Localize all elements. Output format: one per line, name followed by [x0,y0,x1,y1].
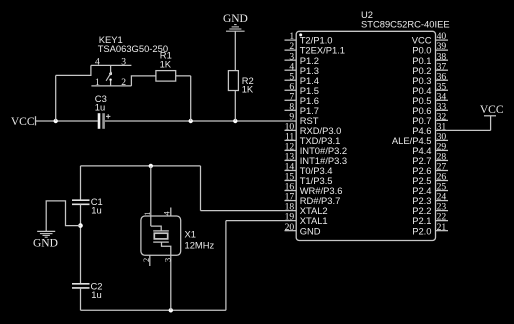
svg-text:VCC: VCC [480,104,504,116]
svg-text:1: 1 [143,212,152,216]
svg-text:TSA063G50-250: TSA063G50-250 [98,43,168,54]
svg-text:1K: 1K [160,59,172,70]
svg-text:3: 3 [121,56,126,67]
svg-text:STC89C52RC-40IEE: STC89C52RC-40IEE [361,18,450,29]
svg-text:P2.0: P2.0 [412,225,431,236]
svg-text:GND: GND [300,225,321,236]
svg-text:1K: 1K [242,84,254,95]
svg-text:VCC: VCC [11,116,35,128]
svg-text:21: 21 [437,222,447,233]
svg-text:1: 1 [95,77,100,88]
svg-text:3: 3 [163,258,172,262]
svg-text:12MHz: 12MHz [185,239,215,250]
svg-text:2: 2 [121,77,126,88]
svg-text:20: 20 [285,222,295,233]
svg-text:1u: 1u [91,204,101,215]
svg-text:1u: 1u [91,289,101,300]
svg-text:X1: X1 [185,229,196,240]
svg-text:4: 4 [95,56,100,67]
svg-text:GND: GND [223,13,248,25]
svg-text:2: 2 [142,258,151,262]
svg-text:1u: 1u [95,102,105,113]
svg-text:GND: GND [33,238,58,250]
